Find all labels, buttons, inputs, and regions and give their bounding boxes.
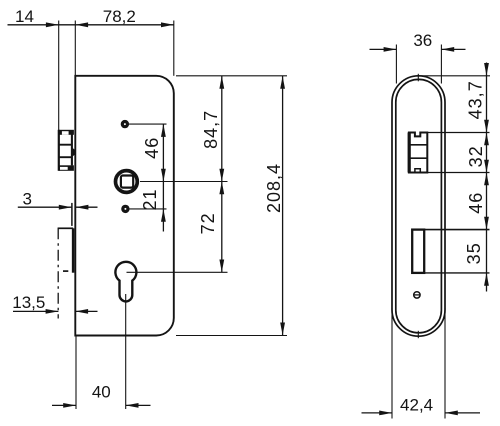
extension line case top right [176,75,287,77]
latch front view [409,133,427,173]
dimension 13,5 [12,293,97,314]
dimension 43,7 [465,63,489,273]
extension line forend 36 right [440,45,442,84]
dimension 46 left [142,124,166,181]
extension line case left bottom [75,336,77,409]
dimension 3 [18,190,98,210]
svg-text:40: 40 [92,383,111,402]
svg-text:43,7: 43,7 [465,80,485,119]
svg-text:72: 72 [198,212,218,234]
dimension 78,2 [75,7,174,27]
dimension 42,4 [362,396,481,416]
extension line case front top [74,21,76,76]
extension line case back top [173,21,175,76]
apex tick top [417,74,419,82]
keyhole centerline [125,294,127,409]
svg-text:13,5: 13,5 [12,293,45,312]
svg-text:21: 21 [140,188,160,210]
extension line lower hole [130,208,167,210]
apex tick bottom [417,331,419,338]
extension line spindle center [140,181,228,183]
extension line forend 36 left [395,45,397,84]
euro cylinder keyhole [115,262,136,302]
svg-text:14: 14 [15,7,34,26]
lock case body [75,76,174,336]
svg-text:32: 32 [466,145,486,167]
svg-text:36: 36 [413,31,432,50]
deadbolt thrown phantom line (dash-dot) [57,228,59,318]
svg-text:35: 35 [464,242,484,264]
extension line 42,4 left [391,308,393,419]
dimension 35 [464,242,489,291]
forend inner outline [396,79,442,332]
svg-text:208,4: 208,4 [264,163,284,213]
svg-text:3: 3 [22,190,31,209]
extension line forend top [417,75,491,77]
screw hole front view [414,292,420,298]
dimension 21 [140,182,166,232]
dimension 14 [8,7,76,27]
svg-text:78,2: 78,2 [103,7,136,26]
dimension 32 [466,133,489,173]
svg-text:46: 46 [142,137,162,159]
extension line case bottom right [176,335,287,337]
extension line deadbolt top [424,229,489,231]
deadbolt side view [58,203,74,273]
extension line 42,4 right [444,308,446,419]
extension line latch top [427,132,489,134]
dimension 72 [198,182,224,273]
forend outer outline [392,76,445,336]
dimension 36 [370,31,466,52]
dimension 40 [52,383,151,408]
dimension 208,4 [264,76,285,336]
latch bolt side view [59,130,76,171]
svg-text:42,4: 42,4 [400,396,433,415]
lower fixing hole [123,206,128,211]
extension line latch bottom [427,172,489,174]
dimension 84,7 [201,76,224,182]
top fixing hole [122,122,127,127]
svg-text:46: 46 [466,192,486,214]
extension line top hole [129,123,167,125]
extension line keyhole center [127,271,228,273]
svg-text:84,7: 84,7 [201,110,221,149]
dimension 46 right [466,173,489,230]
extension line deadbolt bottom [424,272,489,274]
deadbolt front view [412,230,424,273]
extension line faceplate front [58,21,60,131]
spindle follower square hub [116,171,138,193]
